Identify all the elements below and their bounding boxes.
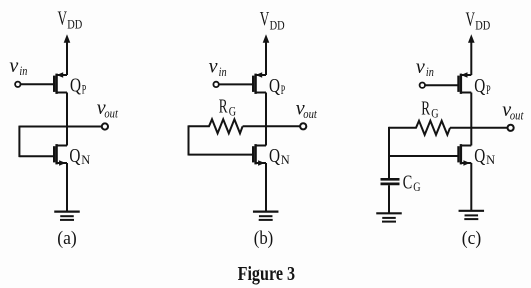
svg-text:R: R (421, 98, 430, 120)
svg-text:V: V (260, 8, 270, 30)
svg-text:Q: Q (269, 75, 280, 97)
svg-text:N: N (486, 153, 495, 167)
svg-text:(a): (a) (57, 228, 77, 249)
svg-text:v: v (209, 56, 218, 78)
svg-text:G: G (413, 180, 420, 194)
svg-text:N: N (81, 153, 90, 167)
svg-text:(b): (b) (254, 228, 274, 249)
svg-text:out: out (303, 106, 317, 121)
svg-text:out: out (510, 108, 524, 123)
svg-text:P: P (281, 83, 286, 97)
svg-text:v: v (416, 56, 425, 78)
svg-text:DD: DD (270, 17, 285, 32)
svg-text:in: in (426, 64, 434, 79)
svg-text:Q: Q (70, 75, 81, 97)
svg-text:N: N (281, 153, 290, 167)
svg-text:G: G (229, 105, 236, 119)
svg-text:Q: Q (269, 145, 280, 167)
svg-text:Q: Q (474, 75, 485, 97)
svg-text:DD: DD (67, 17, 82, 32)
svg-text:Q: Q (69, 145, 80, 167)
svg-text:DD: DD (475, 18, 490, 33)
svg-text:Q: Q (474, 145, 485, 167)
svg-text:in: in (19, 63, 27, 78)
svg-text:C: C (403, 171, 413, 193)
svg-text:v: v (9, 55, 18, 77)
svg-text:P: P (82, 82, 87, 96)
svg-text:out: out (104, 105, 118, 120)
svg-text:P: P (486, 83, 491, 97)
svg-text:(c): (c) (462, 228, 482, 249)
svg-text:R: R (219, 95, 228, 117)
svg-text:V: V (58, 8, 68, 30)
svg-text:in: in (219, 64, 227, 79)
svg-text:Figure 3: Figure 3 (238, 264, 296, 285)
svg-text:V: V (466, 8, 476, 30)
svg-text:G: G (431, 107, 438, 121)
